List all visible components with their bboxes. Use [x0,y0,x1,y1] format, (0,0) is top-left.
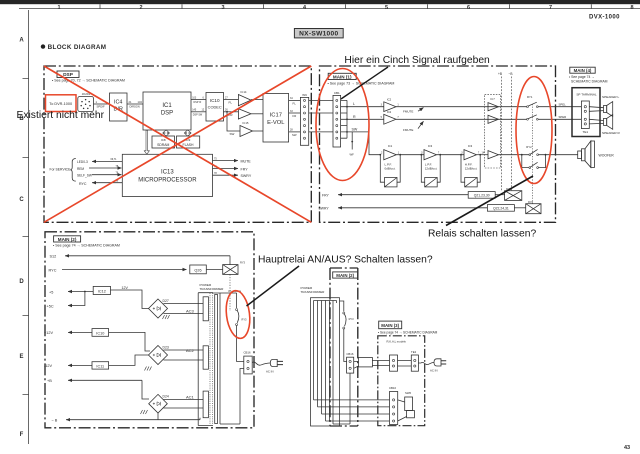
svg-text:12dB/oct.: 12dB/oct. [465,167,478,171]
relay mechanical link (dotted) [531,104,533,204]
svg-text:+B: +B [498,72,502,76]
svg-text:2: 2 [139,5,142,11]
relay RY2 contacts [521,145,556,168]
power rail -12V [44,364,92,368]
svg-text:SWRY: SWRY [241,174,252,178]
terminal TE2 [411,350,418,371]
svg-text:5: 5 [385,5,388,11]
svg-text:6: 6 [467,5,470,11]
SP TERMINAL block [572,88,600,137]
regulator IC11 [92,362,109,369]
trimmer feedback IC3b [461,155,480,187]
wire IC17 to W9 FR [289,110,301,118]
node WF stub [350,132,355,157]
svg-text:+12V: +12V [44,331,53,335]
ground at D24 [141,410,148,414]
service bracket [70,159,75,182]
svg-text:Q26: Q26 [194,269,201,273]
svg-text:IC2: IC2 [387,97,392,101]
connector CB (main3 input) [390,355,398,371]
To DVR-1000 box (red) [46,95,77,112]
svg-text:SW: SW [352,127,358,131]
connector CB16 [244,351,253,374]
signal SELF_SW [77,172,122,178]
svg-text:D: D [19,279,24,285]
relay RY3 switch (middle) [343,312,354,362]
svg-text:AC3: AC3 [186,309,195,314]
wire IC7c to relay RY2 [499,154,529,156]
ground at D27 [163,315,170,319]
svg-text:To DVR-1000: To DVR-1000 [49,102,72,106]
connector CB16 (middle) [346,352,353,373]
relay coil RY2 [526,200,541,214]
svg-text:MUTE: MUTE [241,159,252,163]
IC4 DIR [110,93,128,121]
IC8 SDRAM [152,136,175,148]
svg-text:SWRY: SWRY [319,207,330,211]
svg-text:RYC: RYC [49,268,57,272]
svg-text:− B: − B [52,419,58,423]
primary return wire (middle) [333,373,350,424]
svg-text:SCHEMATIC DIAGRAM: SCHEMATIC DIAGRAM [571,79,608,83]
wire IC3a to IC3b [437,154,465,156]
relay RY1 contact 1 [527,95,539,107]
wire amp FR to IC17 [251,113,263,115]
junction node R [346,118,348,120]
wire IC10 to IC15 [226,111,240,136]
signal REM [77,165,122,171]
signal RYC [79,180,122,186]
svg-text:D23: D23 [163,346,169,350]
terminal TE1 [581,101,589,134]
svg-text:SP TARMINAL: SP TARMINAL [576,92,597,96]
svg-text:NX-SW1000: NX-SW1000 [299,31,338,38]
junction at IC1 filter input [379,154,381,156]
wires D27 to winding AC3 [164,304,204,314]
wire L to IC2a [347,106,384,108]
svg-text:IC17: IC17 [270,113,282,119]
wire IC2a to relay RY1 [396,106,527,108]
svg-text:43: 43 [624,445,630,451]
signal LED0-3 [77,158,122,164]
junction at IC3b output [479,154,481,156]
svg-text:Q21,23,30: Q21,23,30 [474,194,490,198]
svg-text:-12V: -12V [44,364,52,368]
ruler column numbers [57,5,633,11]
cable coupler [354,358,390,369]
junction at IC1 filter output [399,154,401,156]
relay RY1 contact 2 [527,115,539,120]
svg-text:R,K,A,L models: R,K,A,L models [387,340,407,344]
signal SWRY return [319,207,488,211]
MAIN (1) label box [328,73,356,79]
svg-text:IC3: IC3 [468,144,473,148]
trimmer feedback IC3a [421,155,440,187]
svg-text:CB16: CB16 [346,352,353,356]
svg-text:RYC: RYC [79,182,87,186]
svg-text:RY3: RY3 [242,318,248,322]
power transformer label (middle) [301,286,326,294]
svg-text:FMUTE: FMUTE [403,109,413,113]
op-amp IC2b [381,110,400,124]
svg-text:8: 8 [630,5,633,11]
op-amp IC2a [381,97,400,111]
svg-text:WF: WF [350,153,355,157]
connector CB1 [333,91,341,147]
svg-text:12dB/oct.: 12dB/oct. [425,167,438,171]
svg-text:RY1: RY1 [527,95,533,99]
svg-text:DIRSGN: DIRSGN [130,105,140,109]
wire IC1 to IC10 (DSP SW) [191,109,206,117]
svg-text:145: 145 [192,109,197,112]
driver Q22,24,31 [487,205,514,212]
bus arrow IC1 to IC9 FLASH [185,130,191,136]
svg-text:7: 7 [549,5,552,11]
wire SW to filter chain [347,132,380,155]
speaker R [602,115,620,135]
svg-text:IC10: IC10 [210,98,220,103]
AC IN cord and plug (main3) [418,359,446,373]
primary wire to relay RY3 (middle) [340,301,344,312]
svg-text:SW: SW [230,132,235,136]
op-amp IC3a (L.P.F. 12dB/oct) [421,144,440,170]
bus arrow IC1 to IC13 [144,130,149,154]
op-amp IC7c [488,151,499,159]
wires D24 to winding AC1 [164,400,204,409]
svg-text:W9: W9 [302,93,307,97]
svg-text:IC15: IC15 [243,121,249,125]
signal FRY [213,165,249,171]
svg-text:RY2: RY2 [526,145,532,149]
svg-text:103: 103 [192,96,197,99]
MAIN (1) section border [320,66,556,222]
power rail +5C [47,292,85,309]
op-amp IC14 [238,90,251,106]
wire 12V IC12 to D27 [111,286,149,309]
svg-text:• See page 74 → SCHEMATIC DIAG: • See page 74 → SCHEMATIC DIAGRAM [378,331,438,335]
svg-text:FL: FL [293,101,297,105]
svg-text:143: 143 [138,100,143,104]
rectifier D23 [149,346,169,365]
svg-text:DSP SW: DSP SW [193,114,203,117]
svg-text:12V: 12V [122,286,129,290]
svg-text:FL: FL [229,101,233,105]
signal MUTE [213,157,252,163]
row ticks [23,79,29,395]
wires CB to TE2 [398,361,412,367]
wire IC17 to W9 SW [289,129,301,137]
svg-text:TRANSFORMER: TRANSFORMER [301,290,326,294]
bus arrow IC1 to IC8 SDRAM [163,130,169,136]
left margin line [28,10,30,444]
svg-text:• See page 74 →: • See page 74 → [569,75,595,79]
wire +B to D24 [142,380,149,399]
MAIN (2) middle label box [333,272,358,278]
svg-text:AC IN: AC IN [266,369,273,373]
svg-text:IC10: IC10 [96,332,104,336]
regulator IC10 [92,329,109,337]
svg-text:E: E [19,354,23,360]
wire W9 to CB1 SW [309,131,333,133]
annotation line to CB1 [341,67,388,99]
svg-text:Hier ein Cinch Signal raufgebe: Hier ein Cinch Signal raufgeben [344,55,490,66]
svg-text:DSP: DSP [161,111,173,117]
junction at IC3b input [460,154,462,156]
op-amp FR [238,109,251,119]
svg-text:IC14: IC14 [241,90,247,94]
power transformer T1 [198,293,220,426]
svg-text:MICROPROCESSOR: MICROPROCESSOR [138,178,197,184]
relay coil RY1 [505,187,522,200]
svg-text:SELF_SW: SELF_SW [77,174,92,178]
svg-text:LED0-3: LED0-3 [77,160,88,164]
power rail +12V [44,331,92,335]
svg-text:D24: D24 [163,395,169,399]
wire IC1 to IC10 (DSP IF) [191,96,206,104]
trimmer feedback IC1 [380,155,400,187]
op-amp IC15 [240,121,253,137]
svg-text:IC2: IC2 [387,110,392,114]
wire IC14 to IC17 [251,99,263,101]
BLOCK DIAGRAM heading [41,44,107,51]
svg-text:C: C [19,197,24,203]
connector CB10 [389,386,398,424]
speaker L [602,95,619,116]
wire S12 down to RY3 coil [229,256,231,265]
svg-text:SPEL: SPEL [559,102,567,106]
regulator IC12 [93,286,110,294]
junction node SW [346,131,348,133]
relay RY3 switch [236,309,247,362]
connector W9 [300,93,308,146]
MAIN (2) label box [54,236,81,242]
signal RYC [49,268,187,272]
switch SW6 [398,391,415,421]
wire IC15 to IC17 [253,130,264,132]
primary wire to relay RY3 [213,289,242,308]
signal SWRY [213,172,252,178]
junction +5 [84,291,86,293]
wire RY1 to SPEL [538,106,581,108]
wire Q26 to RY3 coil [206,269,222,271]
svg-text:MAIN (2): MAIN (2) [58,237,77,242]
connector JK201 [78,92,94,112]
wires TE1 to speaker R [589,119,603,124]
relay coil RY3 [223,261,246,275]
svg-text:IC1: IC1 [388,144,393,148]
RY3 coil link (dotted) [229,274,231,311]
wires TE1 to speaker L [589,107,603,112]
svg-text:D27: D27 [163,299,169,303]
power -B [509,72,513,190]
svg-text:IC3: IC3 [428,144,433,148]
NX-SW1000 badge [294,29,343,38]
svg-text:CB16: CB16 [244,351,251,355]
svg-text:Q22,24,31: Q22,24,31 [493,207,509,211]
svg-text:REM: REM [77,167,84,171]
annotation line to relays [446,176,533,226]
svg-text:IC4: IC4 [114,99,122,105]
power transformer label [200,283,225,291]
wire RY2 to woofer [556,154,578,156]
power rail -B [52,413,201,423]
svg-text:A: A [19,38,24,44]
svg-text:IC8: IC8 [161,138,166,142]
svg-text:Relais schalten lassen?: Relais schalten lassen? [428,229,536,240]
svg-text:FMUTE: FMUTE [403,128,413,132]
svg-text:IC12: IC12 [98,290,106,294]
op-amp IC1 (L.P.F. 0dB/oct) [381,144,400,170]
annotation line to RY3 [247,266,300,306]
red cross-out X over DSP section [44,66,311,222]
svg-text:SPDIF: SPDIF [97,105,106,109]
svg-text:CODEC: CODEC [208,104,222,109]
top title bar [0,0,640,4]
IC17 E-VOL [263,94,289,143]
red ellipse around RY3 [224,289,253,339]
svg-text:Hauptrelai AN/AUS? Schalten la: Hauptrelai AN/AUS? Schalten lassen? [258,255,433,266]
wire IC10 to IC14 [224,96,239,104]
wire IC17 to W9 FL [289,97,301,105]
svg-text:AC1: AC1 [186,395,195,400]
IC1 DSP [143,92,191,130]
red ellipse around CB1 [316,69,369,181]
svg-text:S12: S12 [50,255,57,259]
svg-text:FLASH: FLASH [183,143,194,147]
wires D23 to winding AC2 [164,350,204,360]
FMUTE tap 2 [403,121,424,132]
IC13 MICROPROCESSOR [122,154,212,196]
svg-text:IC1: IC1 [162,103,172,109]
op-amp IC3b (H.P.F. 12dB/oct) [461,144,480,170]
svg-text:+5C: +5C [47,304,54,308]
ground at D23 [145,367,152,371]
svg-text:TRANSFORMER: TRANSFORMER [200,287,225,291]
primary return wire [220,369,244,425]
svg-text:1: 1 [57,5,60,11]
FMUTE tap 1 [403,108,424,114]
svg-text:SPEAKER R: SPEAKER R [602,131,620,135]
svg-text:MAIN (3): MAIN (3) [381,323,399,328]
signal S12 [50,255,231,259]
svg-text:MAIN (1): MAIN (1) [333,74,352,79]
svg-text:SW6: SW6 [405,391,412,395]
wire W9 to CB1 FR [309,112,333,114]
svg-text:F: F [20,432,24,438]
driver Q21,23,30 [468,192,495,199]
junction at IC3a input [420,154,422,156]
row letters [19,38,24,439]
wire IC10 to amp FR [224,109,239,117]
power transformer T2 (middle) [311,298,340,426]
svg-text:MAIN (4): MAIN (4) [574,68,592,73]
svg-text:Existiert nicht mehr: Existiert nicht mehr [17,110,105,121]
svg-text:+5: +5 [49,290,53,294]
power rail +B [47,379,142,383]
power rail +5 [49,290,93,294]
op-amp IC7a [488,103,499,111]
svg-text:SW: SW [292,133,297,137]
ruler line [19,8,640,10]
svg-text:FRY: FRY [322,193,329,197]
svg-text:IC7: IC7 [490,97,495,101]
rectifier D24 [149,394,169,413]
IC10 CODEC [206,93,224,122]
wire JK201 to IC4 [94,100,110,109]
svg-text:0dB/oct.: 0dB/oct. [385,167,396,171]
svg-text:WOOFER: WOOFER [599,153,615,157]
svg-text:SDRAM: SDRAM [157,143,169,147]
svg-text:DSP IF: DSP IF [194,101,202,104]
svg-text:R: R [353,115,356,119]
DSP section label box [57,71,79,78]
svg-text:• See page 74 → SCHEMATIC DIAG: • See page 74 → SCHEMATIC DIAGRAM [53,244,120,248]
svg-text:DVX-1000: DVX-1000 [589,15,620,21]
svg-text:TE2: TE2 [411,350,417,354]
wire Q21 to RY1 coil [495,194,504,196]
wire IC10 to D23 [109,332,150,351]
wire IC3b to IC7 [477,151,489,154]
svg-text:BLOCK DIAGRAM: BLOCK DIAGRAM [48,44,107,51]
wire IC11 to D23 [109,355,149,365]
wire IC4 to IC1 [127,100,143,109]
wire R to IC2b [347,118,384,120]
CB1 output stubs and bus [341,100,347,138]
MAIN (3) section border [378,336,425,426]
svg-text:• See page 70, 72 → SCHEMATIC: • See page 70, 72 → SCHEMATIC DIAGRAM [52,79,125,83]
svg-text:FRY: FRY [241,167,249,171]
power +B [498,72,502,190]
svg-text:RY3: RY3 [349,317,355,321]
IC7 dashed block [485,95,501,168]
AC IN cord and plug [252,359,283,373]
wire Q22 to RY2 coil [514,207,525,209]
MAIN (4) label box [570,67,595,73]
svg-text:FR: FR [293,114,297,118]
svg-text:IC13: IC13 [161,170,174,176]
op-amp IC7b [488,115,499,123]
red ellipse around RY1 RY2 [516,77,552,184]
svg-text:E-VOL: E-VOL [267,120,285,126]
svg-text:L: L [353,102,355,106]
svg-text:AC2: AC2 [186,348,195,353]
wire IC1 to IC3a [396,154,424,156]
svg-text:CB10: CB10 [389,386,396,390]
svg-text:MAIN (2): MAIN (2) [336,273,354,278]
signal FRY return [322,193,468,197]
MAIN (3) label box [379,321,402,329]
IC9 FLASH [177,136,200,148]
wire IC2b to relay RY1 [396,118,527,120]
svg-text:IC11: IC11 [96,365,104,369]
woofer speaker [578,141,615,167]
junction at IC3a output [439,154,441,156]
svg-text:SPEAKER L: SPEAKER L [602,95,619,99]
svg-text:69,71: 69,71 [111,158,118,161]
wire RY1 to SPER [538,118,581,120]
secondary wires to CB10 [314,400,390,421]
DSP section border [44,66,311,222]
svg-text:SPER: SPER [559,115,567,119]
svg-text:3: 3 [221,5,224,11]
svg-text:TE1: TE1 [582,130,588,134]
svg-text:−B: −B [509,72,513,76]
wire W9 to CB1 FL [309,99,333,101]
svg-text:RY3: RY3 [240,261,246,265]
rectifier D27 [149,299,169,318]
MAIN (2) section border [45,232,254,428]
see page note [569,75,608,83]
